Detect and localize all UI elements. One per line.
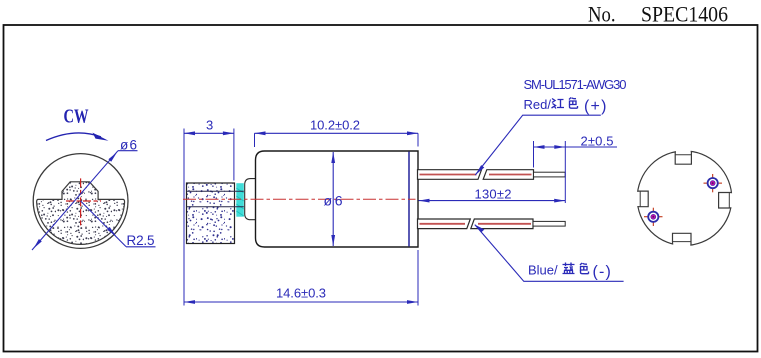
svg-text:10.2±0.2: 10.2±0.2 <box>310 117 360 132</box>
upper lead wire segment 2 <box>483 170 533 180</box>
svg-text:2±0.5: 2±0.5 <box>581 133 614 148</box>
svg-text:Blue/: Blue/ <box>528 263 558 278</box>
right notch <box>719 193 732 209</box>
svg-text:ø6: ø6 <box>120 137 137 152</box>
leader to blue wire <box>475 225 624 282</box>
色 glyph <box>580 263 589 274</box>
svg-text:(+): (+) <box>584 98 608 115</box>
dimension 14.6±0.3 <box>184 250 418 306</box>
eccentric weight cross-section (speckled) <box>37 182 125 245</box>
upper lead wire segment 1 <box>418 170 482 180</box>
lower bare wire end <box>533 221 565 226</box>
dimension 10.2±0.2 <box>255 131 419 147</box>
svg-text:130±2: 130±2 <box>475 186 512 201</box>
terminal symbol upper-right <box>704 174 723 192</box>
weight end-view circle <box>33 154 128 249</box>
svg-text:SPEC1406: SPEC1406 <box>641 2 728 27</box>
diameter dimension line Ø6 (diagonal) <box>32 151 138 250</box>
dimension 3 <box>184 131 234 135</box>
cyan bushing <box>236 183 244 217</box>
front boss <box>245 179 257 220</box>
svg-text:Red/: Red/ <box>524 97 552 112</box>
bottom notch <box>673 233 692 245</box>
leader to red wire <box>475 115 601 175</box>
dimension 2±0.5 <box>534 141 618 203</box>
蓝 glyph <box>563 263 575 274</box>
vertical dimension Ø6 <box>331 152 335 246</box>
svg-text:SM-UL1571-AWG30: SM-UL1571-AWG30 <box>524 77 627 92</box>
center mark (red cross) <box>66 178 101 226</box>
dimension 130±2 <box>419 199 566 203</box>
top notch <box>675 151 691 164</box>
red center line <box>183 198 416 200</box>
end cap line <box>408 152 410 247</box>
eccentric weight side view (speckled) <box>187 183 235 244</box>
shaft lines through weight <box>187 190 244 192</box>
terminal symbol lower-left <box>644 208 663 226</box>
lower lead wire segment 1 <box>418 219 471 229</box>
svg-text:R2.5: R2.5 <box>127 233 155 248</box>
left extension line <box>183 129 185 306</box>
lower lead wire segment 2 <box>471 219 533 229</box>
svg-text:CW: CW <box>64 106 89 128</box>
svg-text:14.6±0.3: 14.6±0.3 <box>276 286 326 301</box>
色 glyph <box>569 98 578 109</box>
svg-text:(-): (-) <box>593 264 613 281</box>
motor body <box>256 151 419 247</box>
left notch <box>638 191 649 207</box>
arc erasers at notches <box>634 146 735 248</box>
end cap circle <box>637 151 732 246</box>
upper bare wire end <box>534 172 566 177</box>
svg-text:No.: No. <box>588 2 616 27</box>
红 glyph <box>552 99 565 109</box>
radius dimension line R2.5 <box>81 201 156 247</box>
CW rotation arc arrow <box>46 133 109 141</box>
svg-text:3: 3 <box>206 117 213 132</box>
right extension line of 3 dim <box>233 129 235 181</box>
